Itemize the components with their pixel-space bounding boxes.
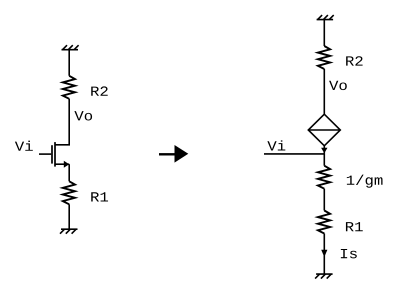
wire R2 to source / node Vo (right) bbox=[323, 69, 325, 114]
resistor R2 (left) bbox=[63, 76, 75, 99]
label Vi (right) bbox=[267, 140, 285, 150]
resistor R1 (right) bbox=[318, 211, 330, 234]
label Is bbox=[341, 249, 357, 258]
label Vo (right) bbox=[329, 81, 347, 90]
label R1 (right) bbox=[346, 222, 363, 231]
label Vi (left) bbox=[15, 141, 33, 151]
wire 1/gm to R1 (right) bbox=[323, 189, 325, 211]
ground (left) bbox=[60, 229, 78, 234]
label R2 (left) bbox=[91, 86, 107, 95]
wire Vi (right) bbox=[264, 153, 324, 155]
current arrowhead into node bbox=[321, 148, 327, 154]
VDD rail (right) bbox=[317, 15, 334, 20]
VDD rail (left) bbox=[62, 45, 79, 50]
gate bar bbox=[51, 145, 53, 163]
wire node to 1/gm bbox=[323, 154, 325, 166]
current arrowhead Is bbox=[321, 250, 327, 257]
wire rail to R2 (left) bbox=[68, 50, 70, 76]
source arrowhead bbox=[64, 161, 69, 168]
transformation arrow bbox=[159, 145, 188, 163]
transistor M1 (NMOS) bbox=[52, 142, 69, 168]
resistor 1/gm bbox=[318, 166, 330, 189]
label 1/gm bbox=[347, 175, 383, 188]
wire Vi to gate (left) bbox=[39, 153, 51, 155]
channel bar bbox=[54, 142, 56, 167]
label R1 (left) bbox=[91, 192, 108, 201]
wire R2 to drain / node Vo (left) bbox=[55, 99, 69, 145]
ground (right) bbox=[315, 274, 333, 279]
wire R1 to ground (left) bbox=[68, 204, 70, 229]
wire diamond to node bbox=[323, 146, 325, 154]
label R2 (right) bbox=[346, 56, 362, 65]
label Vo (left) bbox=[74, 111, 92, 120]
resistor R1 (left) bbox=[63, 181, 75, 204]
wire R1 to ground with current arrow Is bbox=[323, 234, 325, 275]
wire source to R1 (left) bbox=[68, 164, 70, 181]
wire rail to R2 (right) bbox=[323, 20, 325, 46]
dependent current source (diamond) bbox=[308, 114, 340, 146]
source lead with arrow bbox=[55, 163, 69, 165]
resistor R2 (right) bbox=[318, 46, 330, 69]
